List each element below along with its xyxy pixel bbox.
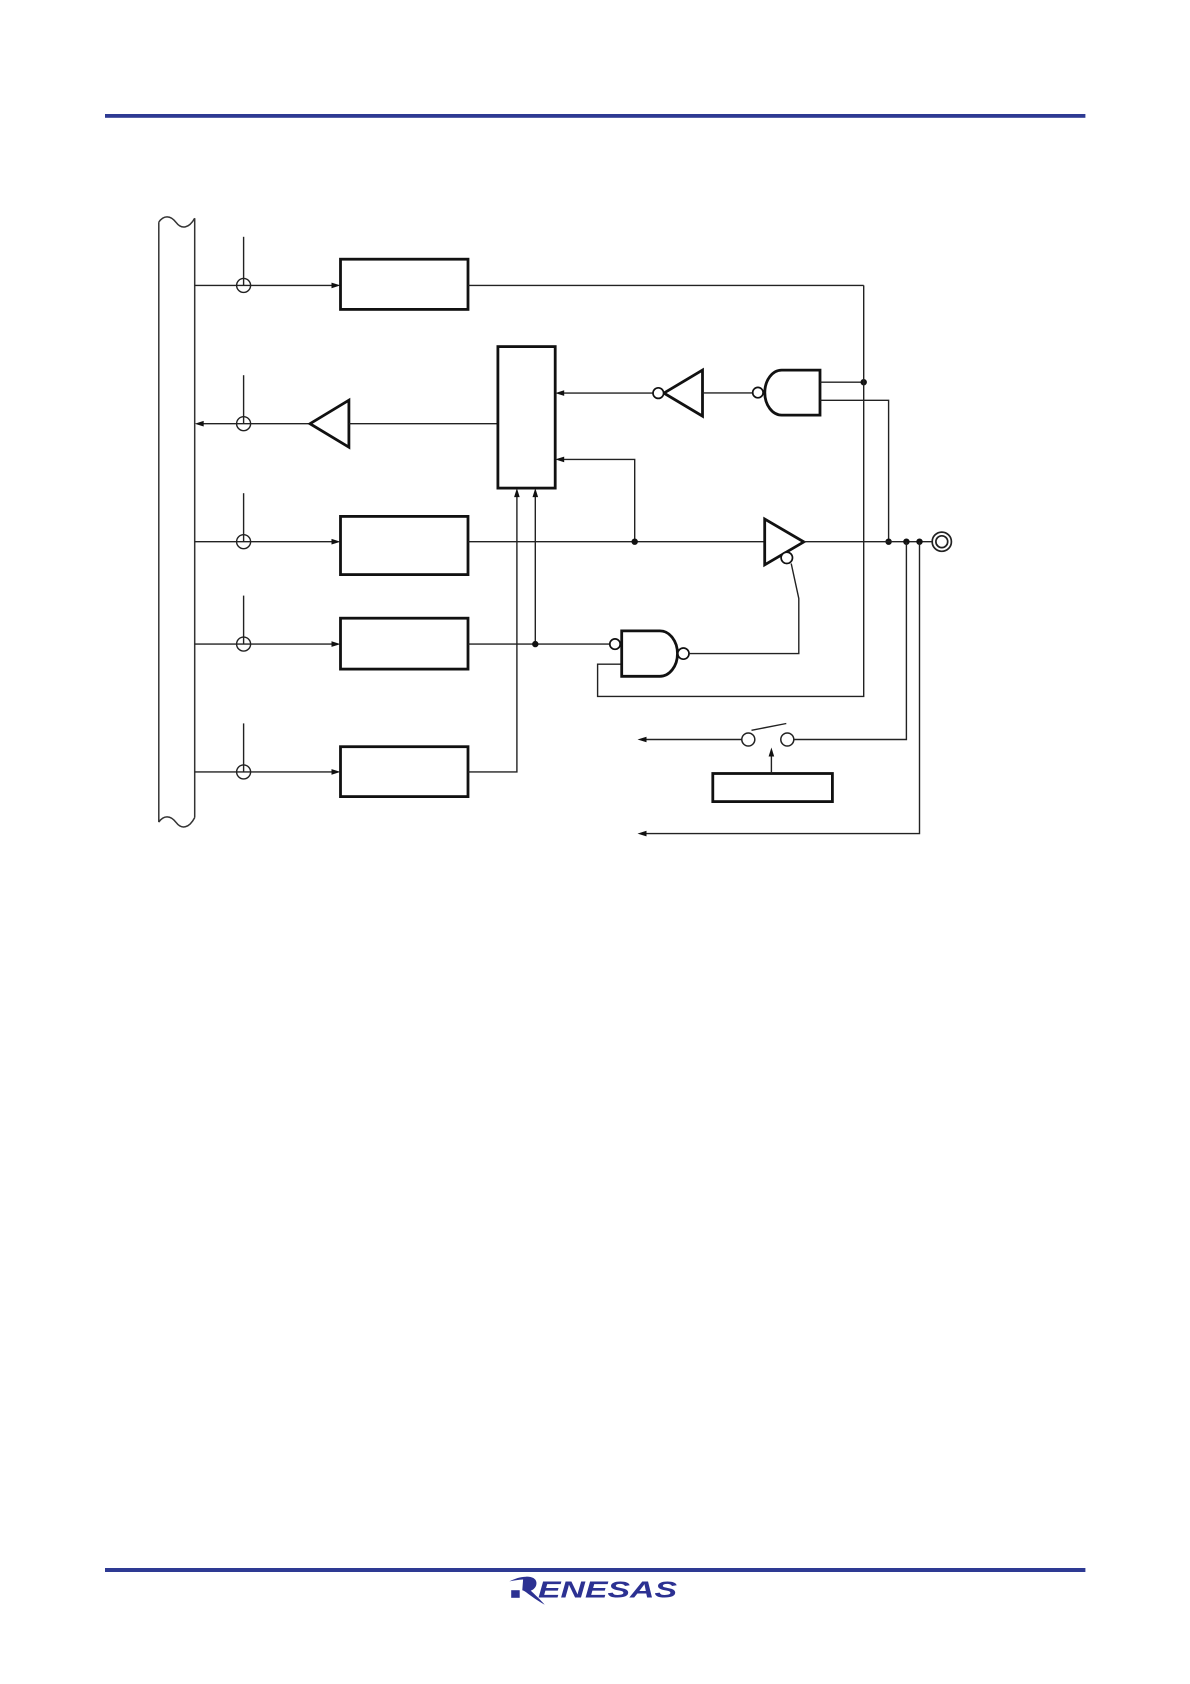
U5 enable bubble bbox=[781, 552, 792, 563]
NAND gate U6 (points left) body bbox=[765, 370, 820, 415]
wire R4 output to NAND U4 input bubble bbox=[468, 643, 610, 645]
wire pad net down to switch right contact bbox=[794, 542, 907, 740]
selector box U2 (tall) bbox=[498, 347, 555, 489]
arrowhead lower input line bbox=[638, 831, 647, 837]
node tick row2 bbox=[243, 375, 245, 424]
arrowhead into U2 right side upper bbox=[555, 390, 564, 396]
wire U6 upper input stub bbox=[820, 381, 864, 383]
feedback wire from R1 output down and around to NAND U4 lower input bbox=[598, 285, 864, 696]
arrowhead into box R4 bbox=[332, 641, 341, 647]
wire U5 output to pad bbox=[804, 541, 932, 543]
junction U6 lower input on row3 net bbox=[885, 539, 891, 545]
arrowhead up into U2 from row4 bbox=[533, 488, 539, 497]
wire row4 branch up into selector box U2 bbox=[534, 497, 536, 644]
arrowhead into box R1 bbox=[332, 283, 341, 289]
register box R5 bbox=[341, 747, 469, 797]
NAND U6 output bubble bbox=[753, 387, 763, 397]
arrowhead into U2 right side lower bbox=[555, 457, 564, 463]
node circle row2 bbox=[237, 417, 251, 431]
data bus (left vertical bus with wavy ends) bbox=[159, 217, 195, 827]
wire from row3 up into selector box U2 right side bbox=[564, 459, 635, 541]
I/O pad (double circle) bbox=[932, 532, 951, 551]
wire inverter U3 output to selector box U2 bbox=[564, 392, 653, 394]
wire row4 bus to register box R4 bbox=[195, 643, 333, 645]
inverter U3 (points left) bbox=[664, 370, 703, 416]
register box R1 bbox=[341, 259, 469, 309]
junction U6 upper input bbox=[861, 379, 867, 385]
wire row1 bus to register box R1 bbox=[195, 284, 333, 286]
wire R5 output up into selector box U2 bbox=[468, 497, 517, 772]
node tick row1 bbox=[243, 237, 245, 286]
control box R6 bbox=[713, 774, 833, 802]
NAND gate U4 (points right) body bbox=[622, 631, 678, 676]
register box R3 bbox=[341, 516, 469, 574]
wire R3 output to output buffer U5 bbox=[468, 541, 765, 543]
node circle row1 bbox=[237, 278, 251, 292]
wire U6 lower input to row3 net bbox=[820, 400, 889, 541]
wire row2 arrow into bus bbox=[204, 423, 311, 425]
arrowhead into bus row2 bbox=[195, 421, 204, 427]
node circle row4 bbox=[237, 637, 251, 651]
bottom blue rule bbox=[105, 1568, 1085, 1572]
junction row3 branch bbox=[632, 539, 638, 545]
node tick row3 bbox=[243, 493, 245, 542]
input buffer triangle U1 (points left) bbox=[310, 400, 349, 447]
register box R4 bbox=[341, 618, 469, 669]
wire from R1 output to feedback vertical bbox=[468, 284, 864, 286]
wire U3 input from NAND U6 output bubble bbox=[703, 392, 753, 394]
svg-text:ENESAS: ENESAS bbox=[538, 1576, 678, 1602]
switch right contact bbox=[781, 733, 794, 746]
NAND U4 output bubble bbox=[678, 648, 689, 659]
junction pad net to switch bbox=[903, 539, 909, 545]
junction row4 branch bbox=[532, 641, 538, 647]
output buffer U5 (tri-state, points right) bbox=[765, 519, 804, 565]
inverter U3 output bubble bbox=[653, 388, 664, 399]
node tick row5 bbox=[243, 723, 245, 772]
arrowhead up from R6 bbox=[769, 748, 775, 757]
node tick row4 bbox=[243, 596, 245, 645]
wire U1 input from selector box bbox=[349, 423, 498, 425]
wire U4 output to output buffer enable bubble bbox=[689, 564, 799, 654]
NAND U4 input bubble bbox=[610, 639, 620, 649]
wire pad net down to lower input arrow bbox=[646, 542, 920, 834]
wire row5 bus to register box R5 bbox=[195, 771, 333, 773]
arrowhead up into U2 from R5 bbox=[514, 488, 520, 497]
wire switch left contact to input arrow bbox=[646, 739, 742, 741]
node circle row5 bbox=[237, 765, 251, 779]
node circle row3 bbox=[237, 535, 251, 549]
arrowhead input line from switch bbox=[638, 737, 647, 743]
switch lever bbox=[752, 724, 787, 731]
arrowhead into box R3 bbox=[332, 539, 341, 545]
junction pad net to input line bbox=[916, 539, 922, 545]
top blue rule bbox=[105, 114, 1085, 118]
Renesas logo bbox=[509, 1576, 677, 1604]
wire row3 bus to register box R3 bbox=[195, 541, 333, 543]
wire R6 up arrow to switch bbox=[770, 756, 772, 773]
switch left contact bbox=[742, 733, 755, 746]
arrowhead into box R5 bbox=[332, 769, 341, 775]
